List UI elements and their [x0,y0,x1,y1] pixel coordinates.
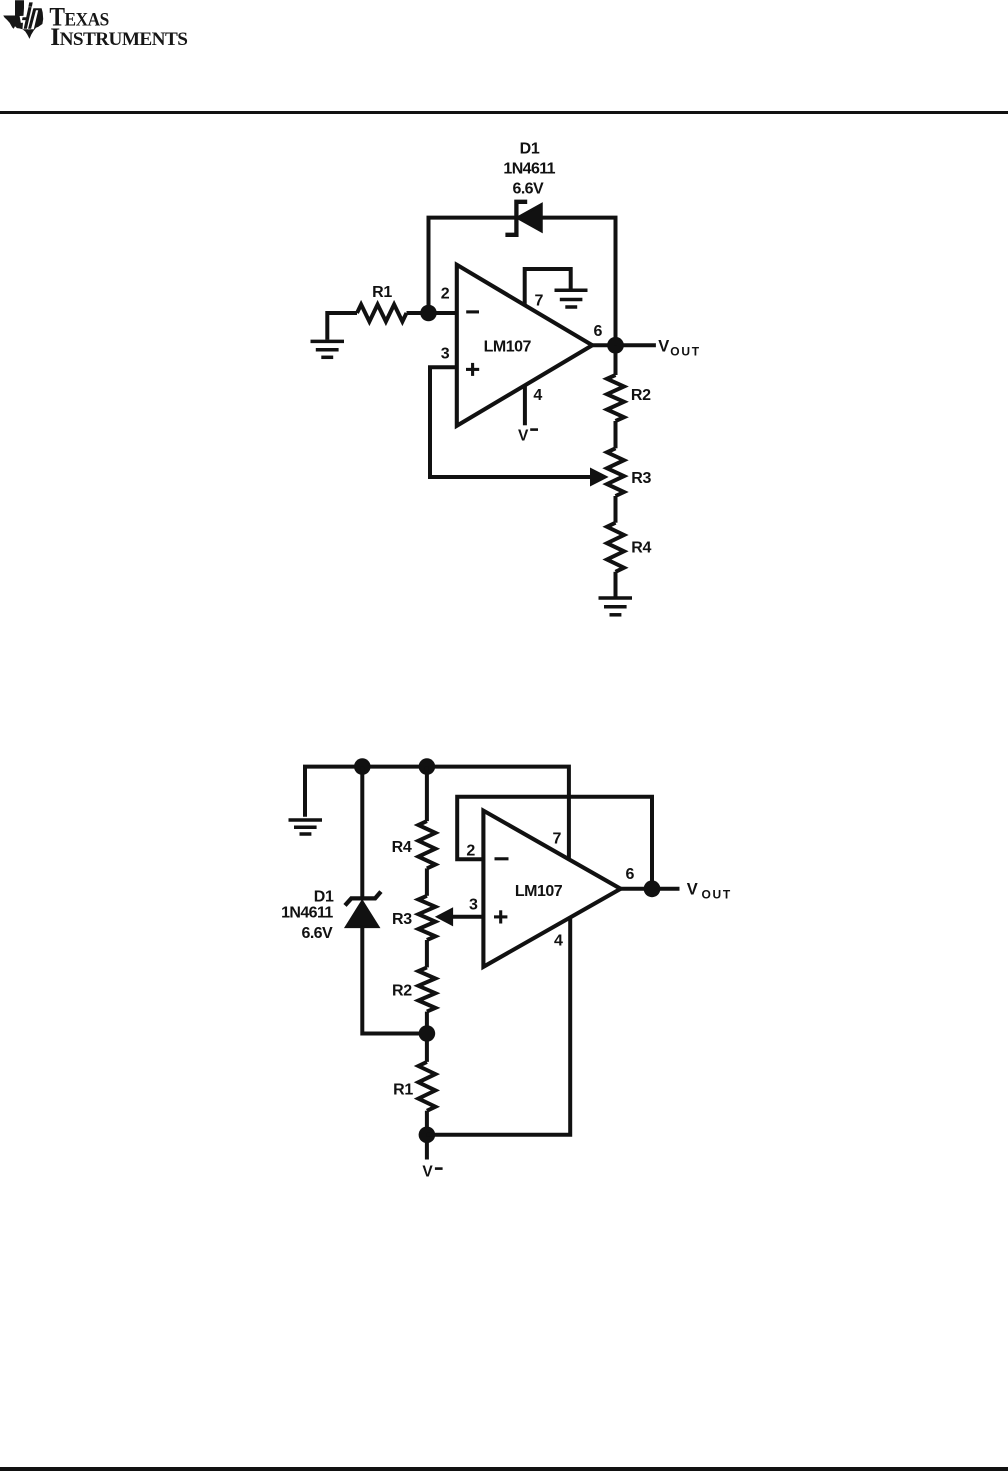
label V- supply (circuit 2) [422,1164,442,1181]
zener diode D1 (circuit 1) [505,202,541,235]
wire: D1 branch vertical [360,767,364,898]
plus sign non-inverting input (circuit 2) [494,910,507,923]
wire: R3 to R4 [614,496,618,523]
wire: R2 down through junction to R1 [425,1012,429,1062]
wire: output to Vout [592,343,656,347]
svg-text:3: 3 [441,345,450,362]
resistor R1 (circuit 1) [357,305,407,322]
minus sign inverting input (circuit 1) [466,310,479,313]
svg-text:7: 7 [553,831,562,848]
svg-text:V: V [687,881,698,899]
svg-text:D1: D1 [314,888,334,905]
svg-text:4: 4 [533,387,542,404]
ground symbol (bottom, circuit 1) [599,598,633,615]
wire: pin 4 V- lead [523,386,527,425]
minus sign inverting input (circuit 2) [495,857,509,860]
potentiometer R3 (circuit 1) [591,448,625,496]
node: output junction dot (circuit 1) [607,337,624,354]
svg-text:LM107: LM107 [484,338,532,355]
node: output junction dot (circuit 2) [644,880,661,897]
node: bottom junction dot at V- [419,1127,436,1144]
Texas Instruments logo (Texas map bug) [0,0,60,50]
wordmark TEXAS INSTRUMENTS [0,0,220,50]
wire: ground lead to R1 [327,313,357,340]
top horizontal rule [0,111,1008,115]
wire: pin 3 down to potentiometer wiper [430,367,592,477]
wire: D1 bottom to R2/R1 junction [362,927,427,1034]
ground symbol (input, circuit 1) [311,341,345,357]
ground symbol (pin 7, circuit 1) [555,290,588,307]
svg-text:R4: R4 [631,540,651,557]
svg-text:D1: D1 [520,141,540,158]
node: rail junction dot at D1 branch [354,758,371,775]
svg-text:7: 7 [535,293,544,310]
svg-text:1N4611: 1N4611 [281,904,333,921]
svg-text:2: 2 [466,842,475,859]
op-amp U2 LM107 (circuit 2) [483,811,620,967]
svg-text:R3: R3 [392,911,412,928]
svg-text:2: 2 [441,286,450,303]
bottom horizontal rule [0,1467,1008,1472]
svg-text:6: 6 [626,866,635,883]
wire: R2 to R3 [614,421,618,448]
wire: feedback Vout to pin 2 [457,797,652,889]
wire: output node down to R2 [614,345,618,375]
wire: pin 3 stub to wiper [453,915,484,919]
svg-text:R2: R2 [392,982,412,999]
resistor R1 (circuit 2) [418,1062,435,1111]
wire: R1 to inverting input pin 2 [407,311,457,315]
svg-text:R1: R1 [372,284,392,301]
resistor R2 (circuit 2) [418,967,435,1011]
wire: R1 to bottom rail and V- [425,1111,429,1160]
wire: circuit1 feedback loop top [429,218,616,345]
svg-text:V: V [658,337,669,355]
zener diode D1 (circuit 2) [345,892,381,927]
svg-text:LM107: LM107 [515,883,563,900]
svg-text:V: V [518,427,529,444]
svg-text:6.6V: 6.6V [513,180,544,197]
wire: rail down to R4 [425,767,429,822]
svg-text:6: 6 [594,323,603,340]
ground symbol (top left, circuit 2) [289,820,323,834]
wire: R4 to R3 [425,868,429,895]
plus sign non-inverting input (circuit 1) [466,363,479,376]
wire: pin 7 to ground [525,269,571,306]
potentiometer R3 (circuit 2) [418,896,452,940]
node: rail junction dot at R4 branch [419,758,436,775]
svg-text:R2: R2 [631,387,651,404]
wire: R4 to ground [614,572,618,597]
resistor R4 (circuit 2) [418,821,435,868]
resistor R4 (circuit 1) [607,523,624,572]
wire: bottom rail to pin 4 [427,918,570,1135]
svg-text:OUT: OUT [702,887,732,901]
svg-text:3: 3 [469,897,478,914]
node: junction dot at pin 2 [420,305,437,322]
op-amp U1 LM107 (circuit 1) [457,265,593,426]
label V- supply (circuit 1) [518,427,538,444]
svg-text:V: V [422,1164,433,1181]
svg-text:6.6V: 6.6V [302,925,333,942]
node: junction dot R2/R1/D1 [419,1025,436,1042]
wire: output to Vout (circuit 2) [621,887,680,891]
svg-text:R3: R3 [631,470,651,487]
wire: R3 to R2 [425,940,429,967]
svg-text:4: 4 [554,933,563,950]
wire: circuit2 top ground rail to pin 7 [305,767,569,860]
svg-text:R1: R1 [393,1081,413,1098]
resistor R2 (circuit 1) [607,375,624,421]
svg-text:OUT: OUT [670,344,700,358]
svg-text:1N4611: 1N4611 [503,161,555,178]
svg-text:R4: R4 [392,839,412,856]
